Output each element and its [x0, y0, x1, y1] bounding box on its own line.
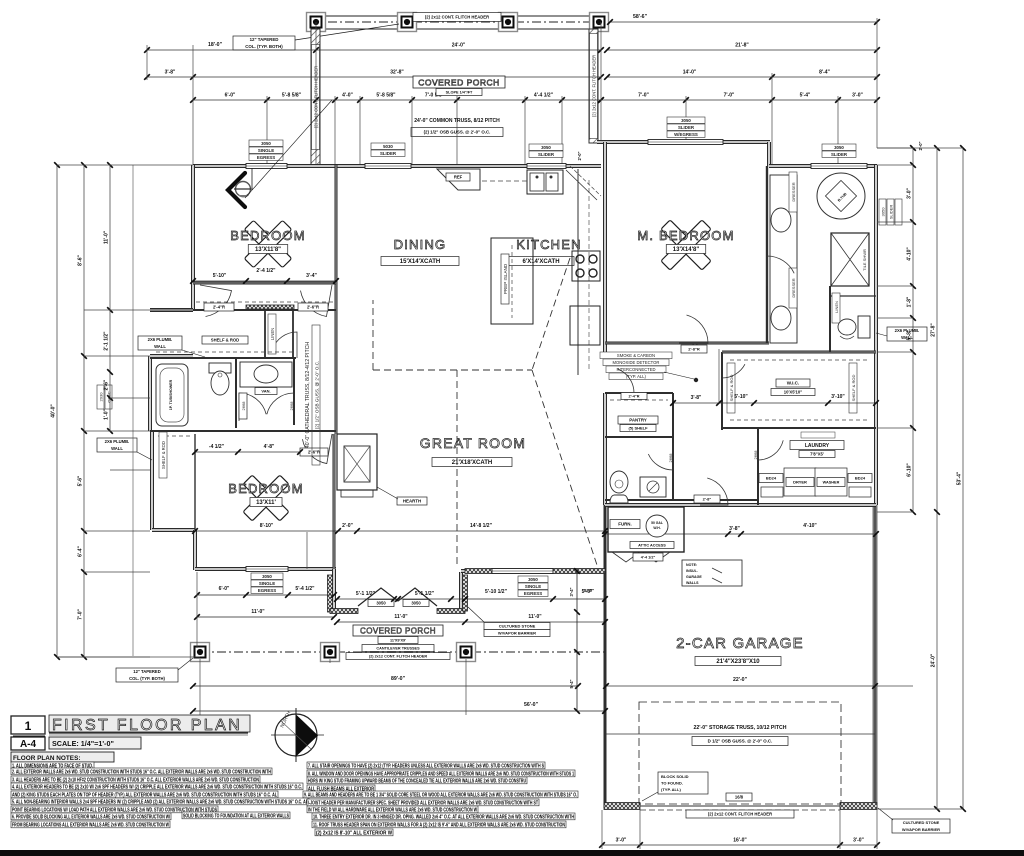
doors bedroom1 — [200, 285, 232, 317]
dim 21-8 — [607, 49, 877, 51]
svg-text:(TYP. ALL): (TYP. ALL) — [661, 787, 681, 792]
extension bedroom2 corner down — [196, 572, 198, 648]
porch right band — [589, 29, 598, 143]
svg-text:3. ALL HEADERS ARE TO BE (2) 2: 3. ALL HEADERS ARE TO BE (2) 2x10 HF#2 C… — [12, 777, 259, 783]
svg-text:COL. (TYP. BOTH): COL. (TYP. BOTH) — [245, 44, 283, 49]
svg-text:7'-0": 7'-0" — [638, 93, 649, 99]
garage door line — [640, 805, 840, 807]
svg-text:D 1/2" OSB GUSS. @ 2'-0" O.C.: D 1/2" OSB GUSS. @ 2'-0" O.C. — [708, 739, 773, 744]
svg-text:(2) 2x12 CONT. FLITCH HEADER: (2) 2x12 CONT. FLITCH HEADER — [369, 654, 427, 658]
door bath1 — [239, 393, 266, 421]
svg-text:1: 1 — [25, 719, 32, 733]
wall pantry bottom — [605, 436, 673, 438]
door wic — [722, 352, 745, 378]
wall bath top exterior stub — [150, 354, 193, 358]
window dining — [365, 164, 411, 169]
svg-text:TO FOUND.: TO FOUND. — [661, 781, 683, 786]
bay window zigzag — [358, 588, 437, 606]
svg-text:3050: 3050 — [261, 141, 271, 146]
svg-text:BD24: BD24 — [766, 475, 777, 480]
svg-text:2. ALL EXTERIOR WALLS ARE 2x6: 2. ALL EXTERIOR WALLS ARE 2x6 WD. STUD C… — [12, 769, 271, 775]
svg-text:10'X5'10": 10'X5'10" — [784, 389, 802, 394]
sensor bedroom1 (smoke detector) — [228, 173, 245, 207]
svg-text:16'-0": 16'-0" — [733, 838, 747, 844]
svg-text:W.I.C.: W.I.C. — [787, 381, 800, 386]
fridge — [570, 306, 600, 345]
svg-text:3'-0": 3'-0" — [852, 93, 863, 99]
svg-text:(5) SHELF: (5) SHELF — [628, 425, 648, 430]
smoke detector note — [600, 352, 672, 359]
svg-text:REF: REF — [454, 174, 463, 179]
svg-text:2'-0": 2'-0" — [577, 151, 582, 160]
svg-text:40'-0": 40'-0" — [51, 404, 57, 418]
svg-text:(2) 2x12 IS 8'-10" ALL EXTERI: (2) 2x12 IS 8'-10" ALL EXTERIOR W — [316, 830, 392, 836]
note left row 1 — [11, 762, 94, 769]
svg-text:2'-6": 2'-6" — [104, 379, 110, 390]
dim row4 right — [601, 99, 877, 101]
svg-text:PANTRY: PANTRY — [629, 418, 647, 423]
note right row 4 — [307, 785, 375, 792]
nook stone right — [463, 575, 468, 611]
svg-text:5'-4 1/2": 5'-4 1/2" — [295, 586, 315, 592]
right extension horizontals — [877, 147, 913, 149]
dim row4 left — [193, 99, 601, 101]
svg-text:GREAT ROOM: GREAT ROOM — [420, 435, 526, 451]
svg-text:VAN.: VAN. — [261, 388, 270, 393]
porch nook left wall — [332, 569, 336, 611]
svg-text:5. ALL NON-BEARING INTERIOR WA: 5. ALL NON-BEARING INTERIOR WALLS 2x4 SP… — [12, 799, 309, 805]
wall bedroom2 closet left — [150, 431, 154, 530]
covered porch bottom labels — [353, 625, 443, 636]
wall garage right (stone) — [873, 505, 878, 808]
svg-text:5'-4": 5'-4" — [569, 679, 574, 688]
wall closet row bottom — [193, 309, 336, 311]
closet shelf dashed lines — [196, 301, 336, 303]
bay window label 1 — [368, 600, 394, 607]
porch column bottom-1 — [191, 643, 210, 662]
wall center vertical lower (pantry/powder) — [603, 393, 607, 505]
svg-text:GARAGE: GARAGE — [686, 575, 702, 579]
svg-text:2X6 PLUMB.: 2X6 PLUMB. — [105, 439, 130, 444]
svg-text:2'-0": 2'-0" — [342, 523, 353, 529]
leader hearth — [377, 487, 398, 499]
svg-text:INSUL.: INSUL. — [686, 569, 698, 573]
window mbath right rotated label — [879, 199, 902, 225]
door hall closet — [273, 332, 297, 358]
corner appliance (ref) — [437, 169, 480, 190]
svg-text:NOTE:: NOTE: — [686, 563, 697, 567]
svg-text:ATTIC ACCESS: ATTIC ACCESS — [638, 543, 666, 547]
label window kitchen — [529, 144, 563, 150]
svg-text:TILE SHWR: TILE SHWR — [862, 249, 867, 271]
svg-text:SLOPE 1/4"/FT: SLOPE 1/4"/FT — [446, 90, 473, 94]
svg-text:2668: 2668 — [668, 453, 673, 463]
svg-text:2'-4 1/2": 2'-4 1/2" — [256, 268, 276, 274]
label tapered col bottom — [116, 668, 178, 682]
svg-text:2'-4"R: 2'-4"R — [629, 394, 640, 398]
svg-text:SHELF & ROD: SHELF & ROD — [851, 375, 856, 402]
note left row 8 — [11, 813, 171, 820]
svg-text:1P. TUB/SHOWER: 1P. TUB/SHOWER — [169, 379, 173, 410]
bedroom2 porch dim 11-0 — [197, 616, 334, 618]
svg-text:3'-8": 3'-8" — [691, 395, 702, 401]
wall bedroom1 left — [191, 165, 195, 310]
label window dining — [371, 143, 405, 149]
kitchen dashed upper cabinets — [482, 180, 527, 182]
svg-text:56'-0": 56'-0" — [524, 702, 539, 708]
garage door dashed — [640, 809, 840, 811]
svg-text:2'-8": 2'-8" — [703, 496, 712, 501]
svg-text:I-JOIST HEADER PER MANUFACTURE: I-JOIST HEADER PER MANUFACTURER SPEC. SH… — [308, 800, 539, 806]
svg-text:5'-8 5/8": 5'-8 5/8" — [376, 93, 396, 99]
wall closet2 divider left — [264, 310, 266, 358]
svg-text:27'-8": 27'-8" — [931, 323, 937, 337]
svg-text:EGRESS: EGRESS — [257, 155, 275, 160]
svg-text:14'-8 1/2": 14'-8 1/2" — [470, 523, 493, 529]
svg-text:5'-6": 5'-6" — [584, 588, 594, 593]
svg-text:1'-0": 1'-0" — [104, 408, 110, 419]
right dim chains — [912, 148, 914, 512]
svg-text:6. PROVIDE SOLID BLOCKING ALL: 6. PROVIDE SOLID BLOCKING ALL EXTERIOR W… — [12, 814, 170, 820]
note right row 7 — [307, 806, 478, 813]
island — [491, 238, 533, 324]
note right row 3 — [307, 777, 527, 784]
svg-text:(2) 1/2" OSB GUSS. @ 2'-0" O.C: (2) 1/2" OSB GUSS. @ 2'-0" O.C. — [315, 361, 320, 430]
dim 56-0 — [193, 710, 605, 712]
svg-text:4'-8": 4'-8" — [264, 444, 275, 450]
svg-text:8'-10": 8'-10" — [260, 523, 274, 529]
svg-text:SINGLE: SINGLE — [259, 581, 275, 586]
dim row3 right — [607, 76, 877, 78]
toilet bath1 — [209, 363, 231, 373]
mbath linen — [832, 293, 840, 323]
svg-text:COVERED PORCH: COVERED PORCH — [360, 627, 436, 636]
title block — [11, 716, 45, 734]
bedroom2 dim row — [195, 530, 605, 532]
garage bottom dims — [602, 844, 877, 846]
svg-text:8. ALL WINDOW AND DOOR OPENING: 8. ALL WINDOW AND DOOR OPENINGS HAVE APP… — [308, 771, 574, 777]
svg-text:16/8: 16/8 — [735, 794, 744, 799]
svg-text:AND (2) KING STUDS EACH PLATES: AND (2) KING STUDS EACH PLATES ON TOP OF… — [12, 792, 278, 798]
svg-text:WALL: WALL — [154, 344, 166, 349]
extension hall — [718, 349, 720, 402]
powder toilet — [610, 471, 628, 493]
covered porch label top — [413, 76, 505, 88]
kitchen counter line — [577, 169, 579, 375]
label window great room — [518, 576, 548, 582]
mbath tub — [817, 173, 865, 219]
wall pantry top — [605, 392, 673, 394]
svg-text:7. ALL STAIR OPENINGS TO HAVE: 7. ALL STAIR OPENINGS TO HAVE (2) 2x12 (… — [308, 763, 544, 769]
garage notes box — [682, 560, 742, 586]
note right row 8 — [312, 813, 575, 820]
svg-text:FIRST FLOOR PLAN: FIRST FLOOR PLAN — [52, 717, 242, 734]
svg-text:13'X14'8": 13'X14'8" — [673, 247, 700, 253]
mbath shower — [831, 233, 869, 286]
nook stone bottom-left — [330, 609, 358, 614]
mbath vanity — [770, 175, 797, 343]
svg-text:4'-4 1/2": 4'-4 1/2" — [641, 555, 656, 559]
sensor mbedroom small — [362, 659, 364, 661]
svg-text:53'-4": 53'-4" — [957, 471, 963, 485]
block solid note — [658, 772, 708, 794]
svg-text:EGRESS: EGRESS — [258, 588, 276, 593]
svg-text:3'-8": 3'-8" — [729, 526, 740, 532]
svg-text:SMOKE & CARBON: SMOKE & CARBON — [617, 353, 655, 358]
svg-text:21'4"X23'8"X10: 21'4"X23'8"X10 — [716, 659, 760, 665]
wall right upper (bath) — [874, 165, 878, 352]
porch column bottom-2 — [321, 643, 340, 662]
svg-text:DRYER: DRYER — [793, 479, 807, 484]
svg-text:5'-1 1/2": 5'-1 1/2" — [356, 591, 376, 597]
svg-text:HDRS W/ KING STUD FRAMING UPWA: HDRS W/ KING STUD FRAMING UPWARD BEAMS O… — [308, 778, 526, 784]
door mbedroom — [679, 315, 708, 343]
fan bedroom2 — [243, 475, 289, 521]
svg-text:3050: 3050 — [881, 207, 886, 217]
dim row3 left — [147, 76, 601, 78]
window bath left rotated labels — [97, 385, 112, 409]
wall left bath exterior — [148, 356, 152, 431]
tub bath1 — [156, 364, 188, 426]
label shelf-rod closet1 — [202, 336, 248, 344]
svg-text:21'-8": 21'-8" — [735, 43, 749, 49]
sheet number A-4 — [11, 737, 45, 750]
svg-text:24'-0": 24'-0" — [452, 43, 466, 49]
svg-text:10. THREE ENTRY EXTERIOR DR. I: 10. THREE ENTRY EXTERIOR DR. IN 3 HINGED… — [313, 814, 574, 820]
label 2x6 plumb wall lower — [97, 438, 137, 452]
svg-text:15'X14'XCATH: 15'X14'XCATH — [400, 259, 440, 265]
svg-text:2'-4"R: 2'-4"R — [213, 304, 225, 309]
osb guss note — [411, 128, 503, 137]
svg-text:22'-0" STORAGE TRUSS, 10/12 PI: 22'-0" STORAGE TRUSS, 10/12 PITCH — [694, 725, 787, 731]
dim row2 left — [147, 49, 601, 51]
svg-text:12" TAPERED: 12" TAPERED — [250, 37, 279, 42]
wall dining/hall left — [335, 165, 338, 434]
svg-text:SLIDER: SLIDER — [380, 151, 397, 156]
svg-text:-4 1/2": -4 1/2" — [209, 444, 225, 450]
svg-text:SLIDER: SLIDER — [889, 205, 894, 220]
label window mbath — [822, 144, 856, 150]
fan mbedroom — [661, 220, 711, 270]
svg-text:11'-0": 11'-0" — [394, 614, 408, 620]
svg-text:(2) 2x12 CONT. FLITCH HEADER: (2) 2x12 CONT. FLITCH HEADER — [425, 14, 489, 19]
kitchen corner diagonal — [566, 170, 597, 200]
svg-text:CULTURED STONE: CULTURED STONE — [903, 820, 940, 825]
svg-text:2-CAR GARAGE: 2-CAR GARAGE — [676, 635, 804, 652]
svg-text:13'X11': 13'X11' — [256, 500, 276, 506]
svg-text:A-4: A-4 — [20, 739, 37, 750]
wall mbed-bath jog — [767, 142, 771, 166]
svg-text:BEDROOM: BEDROOM — [230, 228, 306, 243]
porch col extension lines — [199, 659, 201, 715]
svg-text:50 GAL: 50 GAL — [651, 521, 663, 525]
svg-text:KITCHEN: KITCHEN — [516, 237, 581, 252]
wall closet2 divider right — [292, 310, 294, 358]
svg-text:3050: 3050 — [681, 118, 691, 123]
mbath toilet nook walls — [829, 286, 831, 352]
note right row 2 — [307, 770, 575, 777]
leader sensor — [245, 100, 332, 198]
wall wic top — [722, 351, 876, 354]
svg-text:SOLID BLOCKING TO FOUNDATION A: SOLID BLOCKING TO FOUNDATION AT ALL EXTE… — [183, 813, 289, 819]
svg-text:SLIDER: SLIDER — [538, 152, 555, 157]
door hall-garage — [700, 478, 728, 505]
bottom black band — [0, 850, 1024, 856]
svg-text:EGRESS: EGRESS — [524, 591, 542, 596]
svg-text:2'-1 1/2": 2'-1 1/2" — [104, 331, 110, 351]
svg-text:22'-0": 22'-0" — [733, 677, 748, 683]
porch nook right wall — [459, 572, 463, 611]
svg-text:4. ALL EXTERIOR HEADERS TO BE: 4. ALL EXTERIOR HEADERS TO BE (2) 2x10 W… — [12, 784, 302, 790]
window mbath — [811, 164, 867, 169]
wall wic left — [721, 352, 723, 430]
svg-text:FLOOR PLAN NOTES:: FLOOR PLAN NOTES: — [13, 755, 80, 762]
svg-text:7'-0": 7'-0" — [724, 93, 735, 99]
wall closet jog — [150, 308, 193, 312]
svg-text:1'-8": 1'-8" — [907, 296, 913, 307]
wall hall bottom center — [605, 499, 758, 501]
cultured stone label bottom right — [892, 819, 950, 833]
svg-text:(2) 2x12 CONT. FLITCH HEADER: (2) 2x12 CONT. FLITCH HEADER — [708, 811, 772, 816]
porch left band — [311, 29, 320, 166]
svg-text:W/EGRESS: W/EGRESS — [674, 132, 698, 137]
svg-text:2668: 2668 — [241, 401, 246, 411]
note left row 2 — [11, 768, 272, 775]
svg-text:18'-0": 18'-0" — [208, 42, 223, 48]
wall bath top — [150, 357, 296, 359]
svg-text:3'-8": 3'-8" — [165, 70, 176, 76]
svg-text:BEDROOM: BEDROOM — [228, 481, 304, 496]
svg-text:3050: 3050 — [411, 600, 421, 605]
vanity bath2 — [240, 362, 292, 387]
nook stone bottom-right — [437, 609, 465, 614]
svg-text:12" TAPERED: 12" TAPERED — [133, 669, 161, 674]
porch header line — [311, 21, 601, 23]
svg-text:89'-0": 89'-0" — [391, 676, 406, 682]
washer dryer — [759, 474, 783, 483]
svg-text:58'-6": 58'-6" — [633, 14, 648, 20]
bay window label 2 — [403, 600, 429, 607]
wall great room bottom — [461, 569, 605, 573]
wall pantry/powder right — [672, 393, 674, 500]
svg-text:3'-4": 3'-4" — [306, 273, 317, 279]
svg-text:SHELF & ROD: SHELF & ROD — [161, 441, 166, 469]
title text — [49, 715, 250, 732]
svg-text:SLIDER: SLIDER — [831, 152, 848, 157]
svg-text:SLIDER: SLIDER — [678, 125, 695, 130]
wall bedroom1 bottom — [193, 282, 336, 285]
wall center vertical (kitchen/mbed) — [603, 142, 607, 358]
kitchen sink — [527, 170, 563, 194]
cultured stone label porch — [484, 623, 550, 630]
svg-text:SHELF & ROD: SHELF & ROD — [211, 337, 239, 342]
svg-text:DINING: DINING — [394, 237, 447, 252]
note left row 9 — [11, 821, 170, 828]
svg-text:5'-10": 5'-10" — [213, 273, 227, 279]
svg-text:IN THE FIELD W/ ALL HARDWARE: IN THE FIELD W/ ALL HARDWARE ALL EXTERIO… — [308, 807, 477, 813]
wall closet bottom jog — [152, 528, 195, 532]
pantry — [618, 416, 658, 424]
svg-text:3'-4": 3'-4" — [569, 587, 574, 596]
mbath toilet — [858, 316, 870, 338]
svg-text:14'-0": 14'-0" — [683, 70, 697, 76]
svg-text:COL. (TYP. BOTH): COL. (TYP. BOTH) — [129, 676, 165, 681]
porch dims bottom — [337, 598, 465, 600]
porch column top-1 — [307, 13, 326, 32]
window kitchen sink — [527, 164, 566, 169]
bedroom2 window dims — [197, 594, 334, 596]
left-of-garage vertical dim — [576, 571, 578, 711]
svg-text:WASHER: WASHER — [823, 480, 840, 484]
note left row 4 — [11, 783, 303, 790]
furnace closet — [608, 507, 684, 552]
left dim chains — [56, 165, 58, 657]
svg-text:CANTILEVER TRUSSES: CANTILEVER TRUSSES — [376, 646, 420, 650]
wall mbath top — [769, 164, 877, 168]
svg-text:5'-4": 5'-4" — [800, 93, 811, 99]
note right row 5 — [303, 791, 578, 798]
svg-text:4'-0": 4'-0" — [342, 93, 353, 99]
hearth — [341, 490, 373, 497]
svg-text:SINGLE: SINGLE — [258, 148, 274, 153]
hall dim row — [673, 402, 876, 404]
svg-text:M. BEDROOM: M. BEDROOM — [637, 228, 734, 243]
svg-text:3'-0": 3'-0" — [616, 838, 627, 844]
svg-text:5'-6": 5'-6" — [78, 475, 84, 486]
note left extra row — [182, 812, 290, 819]
svg-text:11'-0": 11'-0" — [251, 609, 265, 615]
label 2x6 plumb wall mbath — [887, 327, 927, 341]
note right row 1 — [307, 762, 545, 769]
svg-text:DRESSER: DRESSER — [791, 278, 796, 297]
rotated truss note — [305, 325, 320, 465]
garage storage truss — [639, 702, 841, 804]
svg-text:SINGLE: SINGLE — [525, 584, 541, 589]
svg-text:5'-10": 5'-10" — [734, 394, 748, 400]
note right row 9 — [312, 821, 566, 828]
svg-text:3050: 3050 — [541, 145, 551, 150]
svg-text:2'-6"R: 2'-6"R — [308, 449, 320, 454]
door pantry — [608, 369, 634, 393]
hall dim row left — [195, 451, 300, 453]
svg-text:WALL: WALL — [111, 446, 123, 451]
label window bedroom1 — [249, 140, 283, 146]
dim 58-6 — [610, 21, 877, 23]
svg-text:LAUNDRY: LAUNDRY — [805, 443, 830, 449]
leader tapered col — [295, 24, 399, 40]
door bedroom2 — [302, 434, 332, 464]
great room front window — [465, 569, 605, 574]
svg-text:COVERED PORCH: COVERED PORCH — [418, 78, 500, 88]
svg-text:11'X9'X9': 11'X9'X9' — [390, 638, 406, 642]
svg-text:W/VAPOR BARRIER: W/VAPOR BARRIER — [498, 630, 536, 635]
scale label — [49, 737, 141, 749]
svg-text:FURN.: FURN. — [618, 522, 631, 527]
svg-text:8'-4": 8'-4" — [819, 70, 830, 76]
powder sink — [640, 477, 666, 497]
garage bottom stone right — [840, 803, 877, 810]
svg-text:2030: 2030 — [99, 392, 104, 402]
label shelf-rod bedroom2 closet — [159, 432, 167, 478]
range — [572, 251, 600, 281]
left extension vertical — [132, 165, 134, 656]
svg-text:FROM BEARING LOCATIONS ALL EX: FROM BEARING LOCATIONS ALL EXTERIOR WALL… — [12, 822, 169, 828]
svg-text:LINEN: LINEN — [270, 328, 275, 340]
svg-text:5'-8": 5'-8" — [907, 329, 913, 340]
svg-text:2X6 PLUMB.: 2X6 PLUMB. — [148, 337, 173, 342]
wall mbedroom top — [597, 140, 770, 144]
wall bedroom2 right — [333, 434, 336, 569]
